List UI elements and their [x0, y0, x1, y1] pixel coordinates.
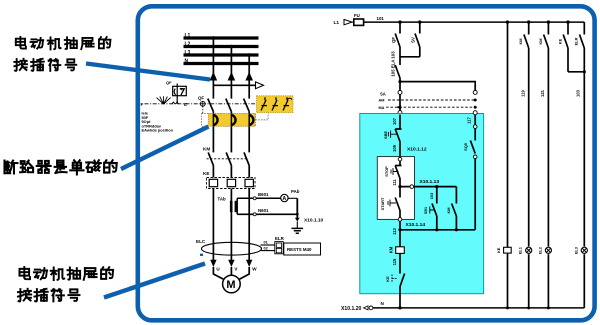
svg-text:105 ELA 103: 105 ELA 103 — [391, 51, 396, 77]
svg-text:V: V — [234, 266, 238, 271]
node X10.1.14 rail — [400, 229, 475, 231]
svg-text:103: 103 — [575, 89, 580, 97]
contact KE — [400, 274, 405, 287]
svg-text:X10.1.13: X10.1.13 — [420, 179, 440, 185]
leader line from middle annotation to breaker — [121, 127, 209, 170]
wire 109 / X10.1.12 — [399, 142, 401, 158]
switch SA — [395, 65, 400, 78]
svg-text:EL1: EL1 — [518, 246, 523, 254]
breaker info text block — [142, 111, 174, 133]
svg-text:EAwhde position: EAwhde position — [142, 128, 174, 133]
lamp EL1 — [526, 247, 532, 253]
pushbutton SBE (NC) — [395, 129, 400, 142]
lamp line 119 with KM contact — [528, 22, 530, 34]
svg-text:A: A — [282, 196, 286, 202]
svg-text:117: 117 — [467, 116, 472, 123]
svg-text:ELC: ELC — [196, 239, 206, 244]
svg-text:QF: QF — [166, 80, 172, 85]
svg-text:M: M — [226, 279, 235, 291]
svg-text:01: 01 — [264, 239, 269, 244]
svg-text:X10.1.14: X10.1.14 — [406, 222, 426, 228]
wire B601 to ammeter — [237, 197, 281, 199]
contact KE (parallel with ELR) — [567, 22, 569, 34]
bus L2 — [184, 45, 259, 48]
svg-text:107: 107 — [392, 117, 397, 125]
magnetic trip coils — [213, 115, 217, 125]
wire 103 ELA 105 — [399, 47, 401, 65]
svg-text:SBE: SBE — [383, 131, 388, 139]
svg-text:AM: AM — [379, 99, 385, 103]
svg-text:B601: B601 — [258, 192, 269, 197]
svg-text:KE: KE — [203, 171, 209, 176]
svg-text:101: 101 — [377, 16, 385, 21]
svg-text:SQ5: SQ5 — [463, 142, 468, 151]
svg-text:109: 109 — [392, 144, 397, 152]
svg-text:KM: KM — [518, 38, 523, 44]
node wire 111 to X10.1.13 — [398, 185, 401, 188]
leader line from bottom annotation to lower plug arrows — [104, 264, 205, 298]
svg-text:TAb: TAb — [218, 197, 227, 202]
svg-text:STOP: STOP — [384, 166, 389, 177]
yellow highlight: magnetic trip band — [208, 114, 255, 127]
svg-text:L2: L2 — [185, 41, 191, 47]
svg-text:KM: KM — [446, 207, 451, 213]
parallel branch SB1 — [435, 185, 438, 188]
leader line from top annotation to plug arrows — [86, 64, 210, 80]
contactor coil KM — [399, 230, 401, 247]
svg-text:PAb: PAb — [291, 189, 300, 194]
relay KE line — [507, 22, 509, 247]
RESTS M40 box — [284, 243, 321, 255]
svg-text:U: U — [216, 266, 220, 271]
svg-text:EL3: EL3 — [573, 246, 578, 254]
contact QF aux — [399, 22, 401, 33]
branch to wire 117 — [398, 80, 401, 83]
wire tap phase 1 — [212, 38, 214, 99]
svg-text:KE: KE — [496, 247, 501, 253]
wire N601 — [236, 198, 238, 214]
svg-text:QF: QF — [198, 96, 204, 101]
svg-text:START: START — [380, 197, 385, 210]
pushbutton START (NO) — [399, 187, 401, 198]
svg-text:RESTS M40: RESTS M40 — [287, 247, 312, 252]
svg-text:N: N — [185, 58, 189, 64]
svg-text:F: F — [141, 102, 144, 107]
note: motor drawer plug symbol (top annotation) — [14, 37, 110, 71]
bus L3 — [184, 53, 259, 56]
svg-text:KE: KE — [385, 276, 390, 282]
wire tap phase 2 — [230, 47, 232, 99]
drawer plug arrows (to motor) — [210, 260, 216, 267]
svg-text:L1: L1 — [334, 20, 340, 26]
motor feeder wires — [213, 267, 225, 280]
note: motor drawer plug symbol (bottom annotation) — [18, 267, 113, 301]
svg-text:111: 111 — [392, 179, 397, 186]
ground X10.1.10 — [288, 197, 297, 199]
svg-text:N: N — [381, 301, 385, 306]
wires 01 / 02 to ELR — [261, 244, 275, 246]
parallel branch KM aux — [455, 187, 457, 204]
contact SV — [419, 22, 421, 33]
svg-text:EL2: EL2 — [537, 246, 542, 254]
motor M — [223, 275, 241, 293]
yellow highlight: breaker release detail — [257, 96, 294, 113]
svg-text:W: W — [252, 266, 257, 271]
breaker QF pole contacts — [208, 99, 214, 112]
lamp EL3 — [581, 247, 587, 253]
drawer plug arrows (incoming) — [210, 72, 218, 81]
svg-text:X10.1.20: X10.1.20 — [341, 306, 362, 312]
bus L1 — [184, 36, 259, 39]
svg-text:115: 115 — [392, 258, 397, 265]
svg-text:KM: KM — [388, 246, 393, 253]
wire tap phase 3 — [248, 55, 250, 99]
svg-text:SV: SV — [411, 37, 416, 43]
svg-text:KE: KE — [558, 38, 563, 44]
svg-text:L1: L1 — [185, 33, 191, 39]
svg-text:QF: QF — [391, 37, 396, 43]
svg-text:113: 113 — [392, 227, 397, 234]
trip linkage dash-dot wire — [145, 103, 257, 105]
svg-text:ELR: ELR — [574, 37, 579, 45]
svg-text:E: E — [184, 102, 187, 107]
wire 117 branch with SQ5 — [473, 111, 477, 115]
magnetic trip dotted outline — [202, 114, 256, 127]
bus N — [184, 62, 259, 65]
breaker QF actuator box — [173, 86, 187, 95]
svg-text:L3: L3 — [185, 50, 191, 56]
withdrawable unit symbol — [157, 96, 179, 104]
svg-text:X10.1.10: X10.1.10 — [304, 218, 324, 224]
svg-text:02: 02 — [264, 245, 269, 250]
svg-text:SB1: SB1 — [424, 207, 428, 214]
control bus 101 — [364, 21, 585, 23]
wire 107 — [399, 115, 401, 129]
svg-text:MA: MA — [379, 106, 385, 110]
lamp EL2 — [545, 247, 551, 253]
inner white box — [377, 157, 414, 220]
lamp line 121 with KM contact — [547, 22, 549, 34]
svg-text:121: 121 — [540, 89, 545, 97]
svg-text:119: 119 — [520, 89, 525, 96]
ammeter PAb — [281, 194, 288, 201]
svg-text:KM: KM — [538, 38, 543, 44]
pushbutton STOP (NC) — [399, 161, 401, 166]
svg-text:SA: SA — [380, 91, 386, 96]
svg-text:KM: KM — [203, 147, 210, 152]
svg-text:ELR: ELR — [275, 236, 285, 241]
cyan control panel — [360, 114, 484, 294]
wire N branch with arrow — [213, 84, 256, 86]
svg-text:103: 103 — [429, 192, 434, 199]
trip unit terminal QF — [200, 101, 205, 106]
note: breaker is single-magnetic (middle annotation) — [4, 160, 116, 174]
svg-text:N601: N601 — [258, 208, 269, 213]
svg-text:X10.1.12: X10.1.12 — [407, 146, 427, 152]
contact ELR — [583, 22, 585, 34]
svg-text:FU: FU — [354, 13, 360, 18]
